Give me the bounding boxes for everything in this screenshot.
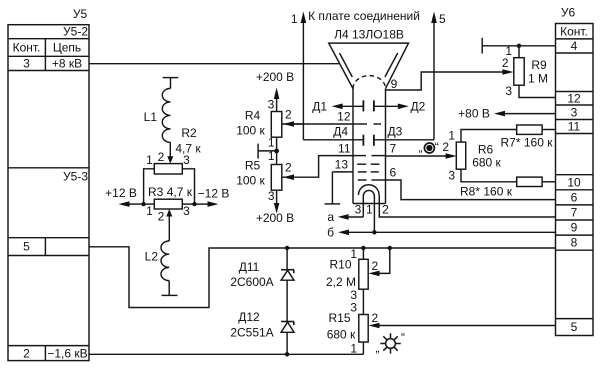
terminal bar below pin 13 [325, 172, 341, 204]
inductor L1 [144, 88, 171, 142]
svg-text:1: 1 [146, 204, 153, 218]
wire R10 pin3 to R15 [362, 289, 364, 314]
svg-text:100 к: 100 к [236, 174, 265, 188]
wire pin 3 to terminal a [327, 210, 363, 224]
wire R9 pin1 to У6 pin 4 with terminal [482, 38, 555, 58]
wire R2 pin1 down to left node [144, 169, 155, 204]
svg-text:8: 8 [571, 236, 578, 250]
connector У5 label [73, 7, 88, 21]
svg-text:“: “ [401, 331, 405, 345]
svg-text:R9: R9 [531, 58, 547, 72]
svg-text:3: 3 [355, 203, 362, 217]
svg-text:11: 11 [338, 142, 351, 156]
svg-text:R7* 160 к: R7* 160 к [501, 136, 554, 150]
svg-text:R8* 160 к: R8* 160 к [460, 185, 513, 199]
svg-text:Конт.: Конт. [560, 24, 588, 38]
+200 V bottom arrow [256, 190, 294, 225]
svg-text:R6: R6 [478, 143, 494, 157]
label К плате соединений [308, 9, 420, 23]
plate Д1 (left arrow) [312, 100, 363, 114]
svg-text:5: 5 [439, 12, 446, 26]
svg-text:6: 6 [571, 190, 578, 204]
svg-text:К плате соединений: К плате соединений [308, 9, 420, 23]
connector У5 table frame [8, 25, 89, 361]
beam spot symbol [419, 140, 439, 155]
inductor L2 [145, 241, 170, 281]
svg-text:2: 2 [158, 210, 165, 224]
node right (-12 V) [192, 187, 229, 207]
svg-text:3: 3 [571, 105, 578, 119]
terminal bar above L1 [163, 78, 179, 89]
CRT funnel [329, 43, 409, 89]
potentiometer R3 [144, 185, 195, 241]
wire У5 pin 5 bus to У6 pin 8 [89, 247, 556, 308]
plate Д2 (right arrow) [374, 100, 426, 114]
svg-text:L2: L2 [145, 250, 159, 264]
svg-text:1: 1 [146, 153, 153, 167]
svg-text:1 М: 1 М [528, 72, 548, 86]
potentiometer R2 [146, 126, 201, 174]
svg-text:2: 2 [23, 346, 30, 360]
svg-text:3: 3 [183, 204, 190, 218]
CRT cathode arc [358, 185, 379, 195]
svg-text:R2: R2 [181, 126, 197, 140]
wire +8 kV from У5 pin 3 to CRT funnel [89, 63, 340, 65]
grid pins 11/7 (dashed electrode) [338, 142, 396, 156]
svg-text:−1,6 кВ: −1,6 кВ [47, 346, 87, 360]
svg-text:2С600А: 2С600А [230, 275, 273, 289]
svg-text:+8 кВ: +8 кВ [52, 57, 82, 71]
svg-text:2: 2 [442, 140, 449, 154]
svg-text:Д1: Д1 [312, 100, 327, 114]
resistor R8* [460, 169, 555, 198]
svg-text:+12 В: +12 В [105, 186, 137, 200]
node between R4 and R5 with terminal stub [258, 137, 279, 164]
svg-text:У5: У5 [73, 7, 88, 21]
svg-text:3: 3 [350, 301, 357, 315]
connector У6 table frame [556, 24, 594, 336]
svg-text:2: 2 [158, 150, 165, 164]
svg-text:б: б [327, 226, 334, 240]
svg-text:5: 5 [23, 240, 30, 254]
svg-text:11: 11 [568, 120, 581, 134]
wire to board arrow 5 (Д3 plate) [431, 12, 446, 140]
svg-text:R4: R4 [245, 109, 261, 123]
svg-text:2: 2 [502, 56, 509, 70]
svg-text:У5-2: У5-2 [63, 25, 88, 39]
svg-text:12: 12 [567, 91, 581, 105]
wire R2 pin3 down to right node [182, 169, 194, 204]
wire pin 9 to R9 wiper [386, 69, 514, 91]
svg-text:а: а [327, 210, 334, 224]
potentiometer R5 [236, 149, 294, 203]
svg-text:5: 5 [571, 320, 578, 334]
grid pin 13 (dashed electrode) [332, 158, 378, 172]
svg-text:„: „ [419, 141, 423, 155]
svg-text:Д11: Д11 [239, 260, 260, 274]
wire pin 7 to R6 wiper [386, 155, 450, 157]
lamp (glow) symbol [376, 331, 406, 356]
svg-text:12: 12 [337, 110, 351, 124]
svg-text:1: 1 [366, 203, 373, 217]
CRT Л4 label [334, 28, 404, 42]
svg-text:Д2: Д2 [411, 100, 426, 114]
svg-text:R15: R15 [328, 311, 350, 325]
wire to board arrow 1 (Д4 plate) [291, 12, 306, 140]
node Д11 top [285, 246, 289, 250]
CRT neck [353, 89, 386, 204]
+80 V arrow from У6 pin 3 [458, 107, 555, 121]
svg-text:4,7 к: 4,7 к [175, 142, 201, 156]
CRT heater U [363, 190, 374, 232]
resistor R7* [461, 125, 556, 150]
svg-text:680 к: 680 к [472, 156, 501, 170]
potentiometer R10 [326, 246, 392, 302]
svg-text:R5: R5 [245, 159, 261, 173]
svg-text:3: 3 [23, 57, 30, 71]
zener diode Д11 [230, 248, 294, 322]
wire pin 2 (cathode) to У6 pin 7 [379, 195, 555, 217]
svg-text:3: 3 [268, 98, 275, 112]
svg-text:+200 В: +200 В [256, 70, 294, 84]
node Д12 bottom [285, 352, 289, 356]
grid pin 6 (dashed electrode) [358, 166, 397, 181]
svg-text:10: 10 [567, 175, 581, 189]
svg-text:Д3: Д3 [388, 125, 403, 139]
svg-text:9: 9 [571, 221, 578, 235]
CRT dashed dome [353, 76, 386, 89]
wire R9 pin3 to У6 pin 12 [519, 85, 556, 97]
svg-text:−12 В: −12 В [198, 187, 230, 201]
potentiometer R6 [442, 129, 501, 183]
svg-text:1: 1 [268, 149, 275, 163]
svg-text:L1: L1 [144, 110, 158, 124]
svg-text:R3 4,7 к: R3 4,7 к [148, 185, 193, 199]
svg-text:R10: R10 [329, 258, 351, 272]
connector У6 table texts [560, 24, 588, 334]
grid pin 12 (dashed electrode) [337, 110, 381, 125]
plate Д4 [303, 125, 363, 146]
svg-text:3: 3 [448, 169, 455, 183]
node left (+12 V) [105, 186, 146, 207]
svg-text:1: 1 [291, 12, 298, 26]
potentiometer R15 [327, 301, 556, 356]
grid (middle, unconnected) [357, 163, 379, 165]
svg-text:„: „ [376, 341, 380, 355]
svg-text:4: 4 [571, 39, 578, 53]
svg-text:680 к: 680 к [327, 328, 356, 342]
svg-text:У6: У6 [561, 6, 576, 20]
potentiometer R9 [502, 44, 548, 98]
wire L1 to R2 wiper [169, 142, 171, 157]
svg-text:6: 6 [390, 166, 397, 180]
svg-text:2,2 М: 2,2 М [326, 275, 356, 289]
svg-text:3: 3 [505, 84, 512, 98]
wire pin 1 to terminal б and У6 pin 9 [327, 226, 555, 240]
svg-text:7: 7 [390, 142, 397, 156]
zener diode Д12 [230, 310, 294, 355]
svg-text:7: 7 [571, 206, 578, 220]
wire R5 wiper to pin 11 [283, 156, 354, 178]
svg-text:100 к: 100 к [236, 124, 265, 138]
wire pin 6 to У6 pin 6 [386, 180, 556, 200]
svg-text:1: 1 [448, 129, 455, 143]
svg-text:3: 3 [268, 189, 275, 203]
wire -1,6 kV bus [89, 353, 363, 355]
svg-text:Цепь: Цепь [53, 41, 81, 55]
svg-text:2: 2 [382, 203, 389, 217]
svg-text:Д12: Д12 [238, 310, 260, 324]
svg-text:Л4 13ЛО18В: Л4 13ЛО18В [334, 28, 404, 42]
svg-text:9: 9 [391, 77, 398, 91]
wire R15 pin1 to bus [362, 342, 364, 354]
svg-text:+200 В: +200 В [256, 211, 294, 225]
svg-text:2: 2 [285, 161, 292, 175]
svg-text:2: 2 [372, 259, 379, 273]
pin labels 3 1 2 [355, 203, 390, 217]
wire R4 wiper to pin 12 [283, 123, 354, 125]
+200 V top arrow [256, 70, 294, 112]
svg-text:2: 2 [285, 108, 292, 122]
svg-text:13: 13 [335, 158, 349, 172]
svg-text:“: “ [435, 140, 439, 154]
svg-text:Конт.: Конт. [13, 41, 41, 55]
connector У6 label [561, 6, 576, 20]
terminal bar below L2 [162, 281, 178, 296]
svg-text:1: 1 [350, 342, 357, 356]
svg-text:+80 В: +80 В [458, 107, 490, 121]
svg-text:У5-3: У5-3 [63, 170, 88, 184]
plate Д3 [374, 125, 434, 146]
potentiometer R4 [236, 98, 303, 150]
svg-text:Д4: Д4 [333, 125, 348, 139]
svg-text:2С551А: 2С551А [230, 325, 273, 339]
svg-text:1: 1 [268, 135, 275, 149]
svg-text:2: 2 [372, 311, 379, 325]
connector У5 table texts [13, 25, 89, 361]
